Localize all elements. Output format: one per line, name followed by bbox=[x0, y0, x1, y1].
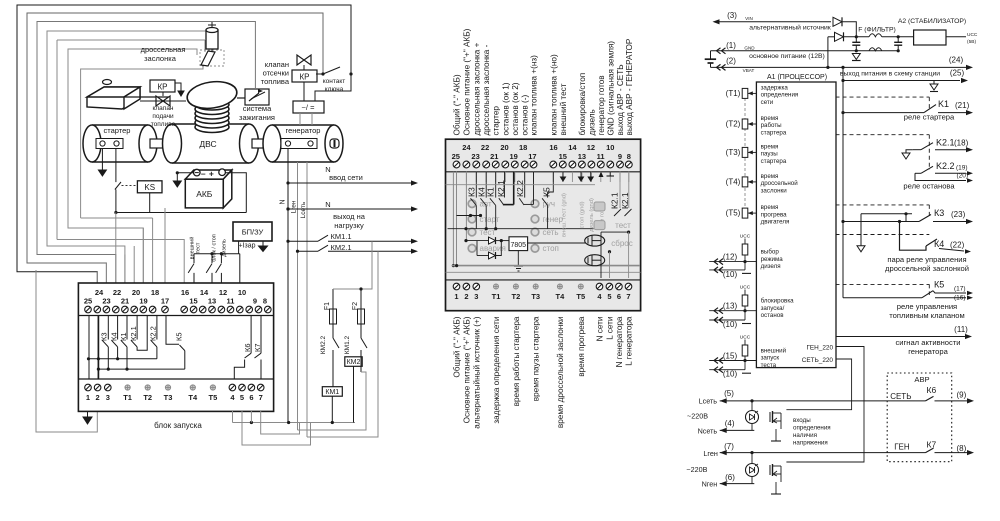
svg-text:основное питание (12В): основное питание (12В) bbox=[749, 53, 825, 60]
svg-text:(2): (2) bbox=[726, 57, 736, 66]
svg-text:блок запуска: блок запуска bbox=[154, 421, 202, 430]
svg-text:К2.2: К2.2 bbox=[515, 180, 525, 197]
svg-text:2: 2 bbox=[96, 393, 100, 402]
svg-text:задержка определения сети: задержка определения сети bbox=[492, 317, 501, 424]
svg-text:определения: определения bbox=[761, 92, 799, 99]
svg-text:(18): (18) bbox=[954, 139, 969, 148]
svg-text:(Т3): (Т3) bbox=[726, 148, 741, 157]
svg-text:Основное питание ("+" АКБ): Основное питание ("+" АКБ) bbox=[462, 316, 471, 423]
svg-text:выбор: выбор bbox=[761, 249, 780, 256]
svg-text:ключа: ключа bbox=[325, 86, 344, 93]
svg-text:ДВС: ДВС bbox=[199, 139, 216, 149]
svg-text:3: 3 bbox=[474, 292, 478, 301]
svg-text:Lсеть: Lсеть bbox=[699, 396, 718, 405]
svg-text:КМ1.1: КМ1.1 bbox=[330, 232, 351, 241]
svg-text:11: 11 bbox=[597, 152, 605, 161]
svg-text:(4): (4) bbox=[725, 419, 735, 428]
svg-text:9: 9 bbox=[253, 297, 257, 306]
svg-text:(Т5): (Т5) bbox=[726, 209, 741, 218]
svg-text:(5): (5) bbox=[724, 389, 734, 398]
svg-text:К1: К1 bbox=[486, 187, 496, 197]
svg-text:10: 10 bbox=[606, 143, 614, 152]
svg-text:время дроссельной заслонки: время дроссельной заслонки bbox=[556, 317, 565, 429]
svg-text:К6: К6 bbox=[927, 385, 937, 395]
svg-text:(1): (1) bbox=[726, 41, 736, 50]
svg-text:останов (ок 1): останов (ок 1) bbox=[501, 82, 510, 135]
svg-text:дроссельная заслонка -: дроссельная заслонка - bbox=[482, 44, 491, 135]
svg-text:N генератора: N генератора bbox=[615, 316, 624, 367]
svg-text:контакт: контакт bbox=[323, 78, 346, 85]
svg-text:(Т1): (Т1) bbox=[726, 89, 741, 98]
svg-text:~220В: ~220В bbox=[686, 465, 707, 474]
svg-text:N сети: N сети bbox=[596, 317, 605, 342]
svg-text:(Т2): (Т2) bbox=[726, 120, 741, 129]
svg-text:K2.1: K2.1 bbox=[936, 138, 955, 148]
svg-text:~220В: ~220В bbox=[687, 412, 708, 421]
svg-text:+Iзар: +Iзар bbox=[239, 243, 256, 250]
svg-text:дроссельной: дроссельной bbox=[761, 180, 799, 187]
svg-text:Lсеть: Lсеть bbox=[300, 201, 307, 218]
svg-text:13: 13 bbox=[208, 297, 216, 306]
svg-text:25: 25 bbox=[84, 297, 92, 306]
svg-text:(10): (10) bbox=[723, 370, 738, 379]
svg-text:3: 3 bbox=[106, 393, 110, 402]
svg-text:(25): (25) bbox=[950, 69, 965, 78]
svg-text:KS: KS bbox=[144, 183, 155, 192]
svg-text:заслонки: заслонки bbox=[761, 187, 788, 194]
svg-text:Nген: Nген bbox=[702, 480, 718, 489]
svg-text:реле стартера: реле стартера bbox=[904, 113, 955, 122]
svg-text:выход на: выход на bbox=[333, 212, 366, 221]
svg-text:теста: теста bbox=[761, 362, 777, 369]
svg-text:задержка: задержка bbox=[761, 84, 789, 91]
svg-text:T4: T4 bbox=[188, 393, 198, 402]
svg-text:дизель: дизель bbox=[587, 109, 596, 135]
svg-text:Общий ("-" АКБ): Общий ("-" АКБ) bbox=[453, 316, 462, 377]
svg-text:стартера: стартера bbox=[761, 158, 787, 165]
svg-text:23: 23 bbox=[471, 152, 479, 161]
svg-text:нагрузку: нагрузку bbox=[334, 221, 364, 230]
svg-text:T2: T2 bbox=[512, 292, 521, 301]
svg-text:К1: К1 bbox=[119, 332, 128, 341]
svg-text:выход АВР - СЕТЬ: выход АВР - СЕТЬ bbox=[616, 64, 625, 135]
svg-text:К2.1: К2.1 bbox=[620, 192, 630, 209]
svg-text:КМ2: КМ2 bbox=[347, 359, 361, 366]
svg-text:UCC: UCC bbox=[967, 32, 978, 38]
svg-text:выход питания в схему станции: выход питания в схему станции bbox=[840, 71, 940, 78]
svg-text:К7: К7 bbox=[927, 440, 937, 450]
svg-text:тест: тест bbox=[615, 221, 631, 230]
svg-text:17: 17 bbox=[161, 297, 169, 306]
svg-text:стартер: стартер bbox=[104, 126, 131, 135]
svg-text:К2.1: К2.1 bbox=[129, 326, 138, 341]
svg-text:(Т4): (Т4) bbox=[726, 177, 741, 186]
svg-text:К3: К3 bbox=[934, 208, 944, 218]
svg-text:ГЕН_220: ГЕН_220 bbox=[806, 345, 833, 352]
svg-text:генератора: генератора bbox=[908, 347, 948, 356]
svg-text:1: 1 bbox=[454, 292, 458, 301]
svg-text:определения: определения bbox=[793, 425, 831, 432]
svg-text:сети: сети bbox=[761, 99, 774, 106]
svg-text:К3: К3 bbox=[467, 187, 477, 197]
svg-text:L генератора: L генератора bbox=[625, 316, 634, 366]
svg-text:18: 18 bbox=[519, 143, 527, 152]
svg-text:система: система bbox=[243, 104, 272, 113]
svg-text:10: 10 bbox=[238, 288, 246, 297]
svg-text:12: 12 bbox=[587, 143, 595, 152]
svg-text:напряжения: напряжения bbox=[793, 440, 828, 447]
svg-text:блокировка/стоп: блокировка/стоп bbox=[578, 73, 587, 136]
svg-text:топливным клапаном: топливным клапаном bbox=[889, 311, 964, 320]
svg-text:14: 14 bbox=[568, 143, 577, 152]
svg-text:25: 25 bbox=[452, 152, 460, 161]
svg-text:СЕТЬ: СЕТЬ bbox=[890, 392, 911, 401]
svg-text:F (ФИЛЬТР): F (ФИЛЬТР) bbox=[858, 27, 896, 34]
svg-text:(7): (7) bbox=[724, 442, 734, 451]
svg-text:–: – bbox=[201, 169, 206, 179]
svg-text:T5: T5 bbox=[209, 393, 218, 402]
svg-text:КМ2.2: КМ2.2 bbox=[320, 336, 327, 355]
svg-text:блокировка: блокировка bbox=[761, 298, 795, 305]
svg-text:внеш. тест (gnd): внеш. тест (gnd) bbox=[562, 193, 568, 237]
svg-text:T1: T1 bbox=[123, 393, 132, 402]
svg-text:сигнал активности: сигнал активности bbox=[895, 338, 960, 347]
svg-text:стартера: стартера bbox=[761, 129, 787, 136]
svg-text:16: 16 bbox=[549, 143, 557, 152]
svg-text:КМ1: КМ1 bbox=[325, 389, 339, 396]
svg-text:прогрева: прогрева bbox=[761, 211, 788, 218]
svg-text:дроссельная: дроссельная bbox=[141, 45, 186, 54]
svg-text:GND: GND bbox=[744, 46, 755, 51]
svg-text:(13): (13) bbox=[723, 302, 738, 311]
svg-text:6: 6 bbox=[249, 393, 253, 402]
svg-text:ГЕН: ГЕН bbox=[894, 443, 910, 452]
svg-text:5: 5 bbox=[240, 393, 244, 402]
svg-text:топлива: топлива bbox=[151, 121, 176, 128]
svg-text:клапан топлива +(но): клапан топлива +(но) bbox=[549, 54, 558, 135]
svg-text:заслонка: заслонка bbox=[144, 54, 177, 63]
svg-text:останов (-): останов (-) bbox=[521, 94, 530, 135]
svg-text:17: 17 bbox=[528, 152, 536, 161]
svg-text:наличия: наличия bbox=[793, 432, 817, 439]
svg-text:(24): (24) bbox=[949, 56, 964, 65]
svg-text:К4: К4 bbox=[109, 332, 118, 341]
svg-text:сеть: сеть bbox=[543, 228, 559, 237]
svg-text:АВР: АВР bbox=[914, 375, 929, 384]
svg-text:альтернатыйный источник (+): альтернатыйный источник (+) bbox=[472, 316, 481, 429]
svg-text:8: 8 bbox=[627, 152, 631, 161]
svg-text:тест: тест bbox=[196, 242, 202, 253]
svg-text:работы: работы bbox=[761, 122, 783, 129]
svg-text:запуск: запуск bbox=[761, 355, 780, 362]
svg-text:время: время bbox=[761, 204, 779, 211]
svg-text:T1: T1 bbox=[492, 292, 501, 301]
svg-text:L сети: L сети bbox=[605, 317, 614, 340]
svg-text:время: время bbox=[761, 143, 779, 150]
svg-text:двигателя: двигателя bbox=[761, 219, 790, 226]
svg-text:К2.2: К2.2 bbox=[149, 326, 158, 341]
svg-text:время работы стартера: время работы стартера bbox=[512, 316, 521, 406]
svg-text:К3: К3 bbox=[100, 332, 109, 341]
svg-text:23: 23 bbox=[102, 297, 110, 306]
svg-text:7: 7 bbox=[626, 292, 630, 301]
svg-text:(15): (15) bbox=[723, 352, 738, 361]
svg-text:21: 21 bbox=[121, 297, 129, 306]
svg-text:T4: T4 bbox=[556, 292, 566, 301]
svg-text:ввод сети: ввод сети bbox=[329, 173, 363, 182]
svg-text:топлива: топлива bbox=[261, 77, 290, 86]
svg-text:пара реле управления: пара реле управления bbox=[887, 255, 966, 264]
svg-text:Lген: Lген bbox=[703, 449, 717, 458]
svg-text:А1 (ПРОЦЕССОР): А1 (ПРОЦЕССОР) bbox=[767, 74, 827, 81]
svg-text:дроссельной заслонкой: дроссельной заслонкой bbox=[885, 264, 969, 273]
svg-text:15: 15 bbox=[189, 297, 197, 306]
svg-text:5: 5 bbox=[607, 292, 611, 301]
svg-text:клапан топлива +(нз): клапан топлива +(нз) bbox=[530, 55, 539, 136]
svg-text:(6): (6) bbox=[725, 473, 735, 482]
svg-text:КМ2.1: КМ2.1 bbox=[330, 243, 351, 252]
svg-text:время прогрева: время прогрева bbox=[577, 316, 586, 377]
svg-text:N: N bbox=[280, 199, 287, 204]
svg-text:N: N bbox=[325, 200, 330, 209]
svg-text:запуска/: запуска/ bbox=[761, 305, 785, 312]
svg-text:15: 15 bbox=[559, 152, 567, 161]
svg-text:9: 9 bbox=[618, 152, 622, 161]
svg-text:GND (сигнальная земля): GND (сигнальная земля) bbox=[606, 41, 615, 136]
svg-text:внешний тест: внешний тест bbox=[559, 83, 568, 135]
svg-text:К2.1: К2.1 bbox=[610, 192, 620, 209]
svg-text:Nсеть: Nсеть bbox=[698, 427, 718, 436]
svg-text:T2: T2 bbox=[143, 393, 152, 402]
svg-text:6: 6 bbox=[617, 292, 621, 301]
svg-text:(12): (12) bbox=[723, 253, 738, 262]
svg-text:7805: 7805 bbox=[511, 242, 527, 249]
svg-text:клапан: клапан bbox=[152, 105, 173, 112]
svg-text:(22): (22) bbox=[950, 241, 965, 250]
svg-text:КР: КР bbox=[300, 73, 310, 82]
svg-text:выход АВР - ГЕНЕРАТОР: выход АВР - ГЕНЕРАТОР bbox=[625, 38, 634, 135]
svg-text:(17): (17) bbox=[954, 286, 966, 293]
svg-text:КМ1.2: КМ1.2 bbox=[344, 336, 351, 355]
svg-text:+: + bbox=[209, 169, 214, 179]
svg-text:19: 19 bbox=[139, 297, 147, 306]
svg-text:К5: К5 bbox=[934, 280, 944, 290]
svg-text:время паузы стартера: время паузы стартера bbox=[532, 316, 541, 401]
svg-text:авария: авария bbox=[480, 244, 506, 253]
svg-text:реле управления: реле управления bbox=[897, 302, 957, 311]
svg-text:паузы: паузы bbox=[761, 151, 779, 158]
svg-text:19: 19 bbox=[510, 152, 518, 161]
svg-text:АКБ: АКБ bbox=[196, 189, 213, 199]
svg-text:стартер: стартер bbox=[492, 106, 501, 136]
svg-text:18: 18 bbox=[151, 288, 159, 297]
svg-text:(8): (8) bbox=[957, 444, 967, 453]
svg-text:(3): (3) bbox=[727, 11, 737, 20]
svg-text:время: время bbox=[761, 115, 779, 122]
svg-text:VIN: VIN bbox=[745, 16, 753, 21]
svg-text:K1: K1 bbox=[938, 99, 949, 109]
svg-text:20: 20 bbox=[500, 143, 508, 152]
svg-text:зажигания: зажигания bbox=[239, 113, 275, 122]
svg-text:21: 21 bbox=[490, 152, 498, 161]
svg-text:1: 1 bbox=[86, 393, 90, 402]
svg-text:внешний: внешний bbox=[761, 348, 787, 355]
svg-text:генератор готов: генератор готов bbox=[597, 75, 606, 135]
svg-text:~/ =: ~/ = bbox=[302, 103, 316, 112]
svg-text:8: 8 bbox=[263, 297, 267, 306]
svg-text:КР: КР bbox=[158, 83, 168, 92]
svg-text:режима: режима bbox=[761, 256, 784, 263]
svg-text:старт: старт bbox=[480, 215, 500, 224]
svg-text:время: время bbox=[761, 173, 779, 180]
svg-text:останов (ок 2): останов (ок 2) bbox=[511, 82, 520, 135]
svg-text:(5В): (5В) bbox=[967, 39, 976, 45]
svg-text:входы: входы bbox=[793, 417, 811, 424]
svg-text:СЕТЬ_220: СЕТЬ_220 bbox=[802, 357, 834, 364]
svg-text:22: 22 bbox=[481, 143, 489, 152]
svg-text:(21): (21) bbox=[955, 101, 970, 110]
svg-text:2: 2 bbox=[464, 292, 468, 301]
svg-text:сброс: сброс bbox=[611, 239, 632, 248]
svg-text:(23): (23) bbox=[951, 210, 966, 219]
svg-text:останов: останов bbox=[761, 312, 785, 319]
svg-text:Общий ("-" АКБ): Общий ("-" АКБ) bbox=[453, 74, 462, 135]
svg-text:(10): (10) bbox=[723, 320, 738, 329]
svg-text:(10): (10) bbox=[723, 270, 738, 279]
svg-text:T3: T3 bbox=[531, 292, 540, 301]
svg-text:Основное питание ("+" АКБ): Основное питание ("+" АКБ) bbox=[462, 28, 471, 135]
svg-text:БП/ЗУ: БП/ЗУ bbox=[242, 228, 264, 237]
svg-text:реле останова: реле останова bbox=[903, 182, 955, 191]
svg-text:Lген: Lген bbox=[291, 200, 298, 213]
svg-text:24: 24 bbox=[462, 143, 471, 152]
svg-text:11: 11 bbox=[227, 297, 235, 306]
svg-text:генер: генер bbox=[543, 215, 564, 224]
svg-text:стоп: стоп bbox=[543, 244, 559, 253]
svg-text:К5: К5 bbox=[174, 332, 183, 341]
svg-text:альтернативный источник: альтернативный источник bbox=[749, 24, 831, 32]
svg-text:VBAT: VBAT bbox=[743, 68, 755, 73]
svg-text:7: 7 bbox=[259, 393, 263, 402]
svg-text:А2 (СТАБИЛИЗАТОР): А2 (СТАБИЛИЗАТОР) bbox=[898, 18, 966, 25]
svg-text:13: 13 bbox=[578, 152, 586, 161]
svg-text:подачи: подачи bbox=[152, 113, 174, 120]
svg-text:T3: T3 bbox=[164, 393, 173, 402]
svg-text:(9): (9) bbox=[957, 391, 967, 400]
svg-text:дроссельная заслонка +: дроссельная заслонка + bbox=[472, 42, 481, 135]
svg-text:(11): (11) bbox=[954, 325, 968, 334]
svg-text:дизеля: дизеля bbox=[761, 263, 781, 270]
svg-text:16: 16 bbox=[181, 288, 189, 297]
svg-text:генератор: генератор bbox=[286, 126, 321, 135]
svg-text:стоп (gnd): стоп (gnd) bbox=[580, 201, 586, 228]
svg-text:(19): (19) bbox=[956, 165, 968, 172]
svg-text:K2.2: K2.2 bbox=[936, 161, 955, 171]
svg-text:T5: T5 bbox=[576, 292, 585, 301]
